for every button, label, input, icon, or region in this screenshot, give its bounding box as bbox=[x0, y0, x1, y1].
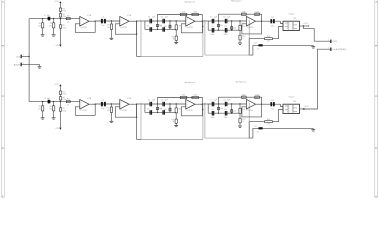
svg-text:TL072D: TL072D bbox=[80, 27, 87, 29]
svg-text:TL072D: TL072D bbox=[186, 27, 193, 29]
network2 input split vertical bbox=[207, 21, 209, 30]
node IC1A output bbox=[95, 21, 96, 22]
wire IC2A to network 2 bbox=[202, 20, 208, 22]
resistor R1 47k bbox=[38, 19, 44, 35]
op-amp IC1A buffer bbox=[80, 14, 92, 29]
node IC2B output bbox=[261, 21, 262, 22]
node net2 link2 top bbox=[231, 20, 232, 21]
svg-text:100k: 100k bbox=[255, 11, 259, 13]
network2 feedback rail bbox=[219, 14, 262, 21]
svg-text:750k: 750k bbox=[62, 27, 66, 29]
right channel output riser to connector pin 2 bbox=[304, 49, 330, 109]
resistor R14 (mid link net2) bbox=[218, 21, 223, 30]
resistor R17 1k (ladder lower net2) bbox=[239, 30, 246, 42]
svg-text:C5: C5 bbox=[147, 25, 149, 27]
resistor R5 750k (bias lower) bbox=[59, 25, 66, 45]
node R1 top bbox=[42, 18, 43, 19]
resistor R6 1k (series to op-amp) bbox=[66, 16, 70, 24]
svg-text:10k: 10k bbox=[164, 26, 167, 28]
node net2 ladder top bbox=[239, 20, 240, 21]
op-amp IC1B bbox=[120, 15, 132, 29]
filter network 2 return wire frame bbox=[205, 20, 249, 55]
node net2 mid bottom bbox=[218, 30, 219, 31]
wire pin2 to ground bbox=[22, 63, 40, 65]
ground under ladder net1 bbox=[174, 42, 178, 44]
capacitor C7 1uF bbox=[210, 17, 218, 24]
capacitor C6 1uF (lower arm) bbox=[160, 25, 165, 31]
resistor R16 (ladder upper net2) bbox=[239, 21, 245, 30]
svg-text:10k: 10k bbox=[220, 25, 223, 27]
network1 top rail bbox=[145, 20, 186, 22]
resistor R19 100k (rail net2) bbox=[255, 11, 260, 15]
svg-text:Output: Output bbox=[289, 12, 295, 15]
main input wire bbox=[29, 18, 80, 20]
svg-text:100k: 100k bbox=[193, 12, 197, 14]
resistor R15 (link2 net2) bbox=[231, 21, 236, 30]
node net1 ladder top bbox=[176, 20, 177, 21]
output module JP1 bbox=[283, 12, 300, 30]
svg-text:+: + bbox=[187, 18, 188, 20]
ground under R2 bbox=[52, 34, 56, 36]
svg-text:R20: R20 bbox=[267, 36, 270, 38]
wire C12 right to ground bbox=[263, 44, 314, 46]
op-amp IC1B output wire bbox=[129, 20, 137, 22]
svg-text:10µ: 10µ bbox=[271, 25, 274, 27]
svg-text:Hochpass 2: Hochpass 2 bbox=[236, 81, 247, 83]
resistor R13 100k (rail) bbox=[192, 12, 199, 16]
capacitor C10 1uF (lower arm) bbox=[224, 26, 228, 36]
output connector pin 2 bbox=[328, 48, 346, 52]
svg-text:C11: C11 bbox=[271, 17, 274, 19]
svg-text:C2: C2 bbox=[102, 17, 104, 19]
svg-text:C9: C9 bbox=[211, 26, 213, 28]
ground under R7 bbox=[110, 38, 114, 40]
svg-text:10k: 10k bbox=[233, 27, 236, 29]
svg-text:1k: 1k bbox=[173, 39, 175, 41]
output connector pin 1 bbox=[328, 40, 337, 43]
node module output bbox=[303, 25, 304, 26]
resistor R8 (mid link) bbox=[157, 21, 162, 29]
svg-text:C7: C7 bbox=[210, 17, 212, 19]
svg-text:10k: 10k bbox=[267, 41, 270, 43]
ground under ladder net2 bbox=[238, 43, 242, 45]
capacitor C12 (series element) bbox=[254, 43, 263, 51]
input connector X1 pin 2 bbox=[14, 63, 24, 67]
op-amp IC2A bbox=[186, 14, 198, 29]
resistor R7 1M bbox=[107, 21, 113, 38]
svg-text:C10: C10 bbox=[224, 26, 227, 28]
network1 input split vertical bbox=[144, 21, 146, 29]
feedback wire IC1B bbox=[115, 21, 136, 34]
svg-text:100k: 100k bbox=[224, 34, 228, 36]
svg-text:C3: C3 bbox=[148, 17, 150, 19]
resistor R3 750k (bias upper) bbox=[59, 8, 66, 14]
network1 feedback rail bbox=[158, 15, 203, 22]
capacitor C4 1uF bbox=[161, 17, 169, 24]
svg-text:10k: 10k bbox=[159, 25, 162, 27]
svg-text:47k: 47k bbox=[38, 26, 41, 28]
svg-text:Hochpass 2: Hochpass 2 bbox=[231, 1, 242, 3]
capacitor C9 1uF (lower arm) bbox=[210, 26, 214, 36]
resistor R2 47k bbox=[49, 19, 55, 35]
svg-text:JP1: JP1 bbox=[293, 18, 296, 20]
network1 bottom rail bbox=[145, 28, 176, 30]
node IC1B feedback / sense drop bbox=[136, 34, 137, 35]
node on network1 return wire bbox=[202, 26, 203, 27]
frame left zone letters bbox=[2, 1, 4, 199]
resistor R9 (link2) bbox=[164, 21, 171, 29]
node net1 mid bottom bbox=[157, 29, 158, 30]
node net1 mid top bbox=[157, 20, 158, 21]
wire C12 left to network2 return bbox=[249, 45, 258, 55]
input connector X1 pin 1 bbox=[16, 55, 24, 59]
resistor R20 10k (output shunt) bbox=[265, 36, 273, 43]
bias node on signal wire bbox=[60, 18, 61, 19]
svg-text:IN-L: IN-L bbox=[16, 56, 19, 58]
resistor R18 100k (rail net2) bbox=[241, 11, 246, 15]
svg-text:Hochpass 1: Hochpass 1 bbox=[185, 1, 196, 3]
svg-text:TL072D: TL072D bbox=[120, 27, 127, 29]
ground at output common bbox=[311, 45, 315, 48]
svg-text:1k: 1k bbox=[242, 38, 244, 40]
node R2 top bbox=[53, 18, 54, 19]
wire IC1A to C2 bbox=[95, 20, 120, 22]
wire R20 left to bus bbox=[249, 39, 264, 55]
network2 top rail bbox=[208, 20, 246, 22]
node IC2A output bbox=[202, 21, 203, 22]
svg-text:R6: R6 bbox=[67, 16, 69, 18]
svg-text:OUT1: OUT1 bbox=[304, 23, 309, 25]
svg-text:1k: 1k bbox=[257, 49, 259, 51]
op-amp IC1A output wire bbox=[89, 20, 95, 22]
wire IC2B output to C11 bbox=[262, 20, 281, 22]
capacitor C1 1uF bbox=[44, 15, 51, 21]
capacitor C5 1uF (lower arm) bbox=[147, 25, 152, 31]
+12V supply arrow bbox=[54, 1, 61, 8]
wire jog into output module bbox=[281, 21, 284, 23]
resistor R10 (ladder upper) bbox=[175, 21, 181, 30]
vertical wire IC1B output down to network1 return bbox=[136, 21, 138, 56]
svg-text:C1 1µF: C1 1µF bbox=[44, 15, 51, 17]
ground under R1 bbox=[41, 34, 45, 36]
junction at riser / pin1 wire bbox=[28, 56, 29, 57]
wire IC1B to network 1 bbox=[137, 20, 145, 22]
svg-text:AUX-IN: AUX-IN bbox=[14, 63, 21, 66]
op-amp IC2B output wire bbox=[256, 20, 262, 22]
svg-text:100k: 100k bbox=[242, 11, 246, 13]
svg-text:C8: C8 bbox=[223, 17, 225, 19]
svg-text:750k: 750k bbox=[62, 16, 66, 18]
sheet frame right double line bbox=[375, 0, 378, 197]
feedback wire IC1A bbox=[75, 21, 95, 32]
filter network 1 return wire frame bbox=[141, 20, 203, 57]
network2 bottom rail bbox=[208, 29, 240, 31]
node net1 link2 top bbox=[169, 20, 170, 21]
svg-text:C4: C4 bbox=[161, 17, 163, 19]
svg-text:10µ: 10µ bbox=[101, 25, 104, 27]
svg-text:+: + bbox=[121, 18, 122, 20]
capacitor C11 10uF (output coupling) bbox=[270, 17, 274, 27]
svg-text:1k: 1k bbox=[67, 21, 69, 23]
capacitor C3 1uF bbox=[148, 17, 156, 24]
frame right zone letters bbox=[375, 1, 377, 199]
svg-text:47k: 47k bbox=[49, 26, 52, 28]
capacitor C8 1uF bbox=[223, 17, 231, 24]
svg-text:+: + bbox=[81, 18, 82, 20]
svg-text:Out-B (STEREO): Out-B (STEREO) bbox=[332, 48, 346, 51]
svg-text:100k: 100k bbox=[182, 12, 186, 14]
op-amp IC2A output wire bbox=[195, 20, 202, 22]
right channel (duplicate of shared geometry) bbox=[29, 84, 315, 140]
wire joining drop to network1 return bbox=[137, 56, 141, 58]
svg-text:100k: 100k bbox=[210, 34, 214, 36]
module lower input wire bbox=[272, 27, 283, 39]
wire pin1 to riser bbox=[22, 55, 29, 57]
module output wire bbox=[300, 25, 304, 27]
resistor R12 100k (rail) bbox=[180, 12, 187, 16]
svg-text:TL072D: TL072D bbox=[247, 27, 254, 29]
node net2 mid top bbox=[218, 20, 219, 21]
input riser wire feeding both channels bbox=[28, 19, 30, 102]
op-amp IC2B bbox=[246, 15, 258, 29]
feedback wire IC2B bbox=[242, 21, 262, 34]
capacitor C2 10uF bbox=[101, 17, 106, 27]
svg-text:10k: 10k bbox=[242, 26, 245, 28]
svg-text:750k: 750k bbox=[62, 11, 66, 13]
resistor R4 750k (bias mid) bbox=[59, 14, 66, 25]
svg-text:+: + bbox=[248, 18, 249, 20]
sheet frame left double line bbox=[1, 0, 4, 197]
wire module output to connector pin 1 bbox=[304, 26, 331, 41]
left channel output stub and net arrow bbox=[304, 23, 310, 27]
-12V supply arrow bbox=[55, 45, 61, 47]
svg-text:Hochpass 1: Hochpass 1 bbox=[185, 82, 196, 84]
feedback wire IC2A bbox=[181, 21, 202, 33]
ground at input pin 2 bbox=[39, 64, 41, 66]
node net2 link2 bottom bbox=[231, 30, 232, 31]
svg-text:OUT2: OUT2 bbox=[304, 106, 309, 108]
node right module output bbox=[303, 108, 304, 109]
node R7 top bbox=[111, 20, 112, 21]
node IC1B output bbox=[136, 21, 137, 22]
svg-text:OUT-L: OUT-L bbox=[332, 41, 337, 43]
svg-text:C12: C12 bbox=[254, 43, 257, 45]
resistor R11 1k (ladder lower) bbox=[171, 30, 177, 42]
